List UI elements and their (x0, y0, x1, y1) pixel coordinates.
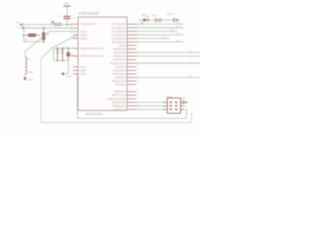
bottom faint wire (41, 122, 192, 124)
left pin AVCC stub (73, 27, 78, 29)
left pin numbers (70, 23, 73, 75)
bottom gnd wire (77, 117, 186, 119)
softening overlay (0, 0, 200, 135)
wire resistor to IC pin1 (61, 24, 73, 26)
left pin AGND2 stub (73, 37, 78, 39)
net name labels right (162, 22, 193, 78)
junction C2 top (57, 47, 59, 49)
button/contact S2 in pin13 chain (155, 19, 158, 22)
left pin AREF stub (73, 30, 78, 32)
right faint wire up (191, 113, 193, 123)
gnd wire up to ICSP (186, 109, 188, 118)
right pins PD0-PD7 stubs (127, 45, 136, 84)
wire C1 to reset net (66, 19, 68, 25)
left stubs (163, 102, 183, 109)
left pin PC6/RESET stub pin1 (73, 24, 78, 74)
pads (170, 102, 178, 111)
left pin AGND stub (73, 34, 78, 36)
wire crystal gnd down (67, 61, 69, 74)
right side net wires from ADC pins (136, 24, 184, 42)
diagonal wire AGND from IC (41, 35, 78, 59)
resistor R1 vertical (42, 28, 49, 43)
wire IC GND down to bottom rail (76, 74, 78, 118)
wire SCK to ICSP (136, 108, 167, 110)
left pin XTAL2 stub (73, 55, 78, 57)
left pin XTAL1 stub (73, 47, 78, 49)
wire coil to gnd arrow (24, 74, 26, 78)
inductor/antenna coil (25, 57, 27, 74)
wire XTAL1 (54, 47, 74, 49)
wire XTAL2 (70, 55, 73, 57)
wire reset net (21, 24, 54, 26)
crystal Q1 (67, 48, 71, 60)
right pin numbers (137, 23, 140, 110)
right stubs (181, 101, 183, 103)
junction on reset net (66, 24, 68, 26)
right side net wires from PD pins (136, 53, 200, 78)
ICSP connector SV1 (163, 95, 187, 113)
left pin GND2 stub (73, 73, 78, 75)
capacitor C2 (56, 48, 59, 60)
capacitor C1 on +5V line (64, 16, 71, 18)
right pins PB0-PB5 stubs (pins 14-19) (127, 92, 136, 110)
right pin name labels (108, 22, 126, 111)
left pin name labels (80, 22, 104, 76)
wire AVCC net (22, 27, 78, 29)
ic IC1 ATmega328 body (78, 17, 127, 111)
right pins PC0-PC5 ADC stubs (pins 23-28) (127, 24, 136, 42)
wire AREF row (50, 30, 79, 32)
net arrow right (174, 18, 179, 21)
ground arrow left (61, 72, 64, 76)
left pin VCC stub (73, 66, 78, 68)
wire LED to R4 (148, 19, 153, 21)
junction crystal top (67, 47, 69, 49)
ground arrow down (23, 78, 27, 81)
vertical wire x41 down (40, 59, 42, 123)
pushbutton S1 actuator mark (51, 21, 54, 24)
gnd rail under crystal (54, 60, 69, 62)
resistor R2 horizontal (23, 31, 40, 42)
wire XTAL1 drop (53, 48, 55, 60)
junction AVCC/R1 (43, 27, 45, 29)
LED1 on pin13 chain (138, 14, 149, 25)
supply +5V symbol (64, 2, 71, 16)
left pin GND1 stub (73, 69, 78, 71)
wire R2 down to rail (23, 35, 25, 42)
pushbutton S1 on reset line: contact circles (55, 23, 58, 26)
+5V arrow at ICSP (183, 101, 187, 104)
capacitor C3 (61, 48, 64, 60)
wire rail y41.7 (24, 41, 44, 43)
junction C3 top (62, 47, 64, 49)
diagonal wire AREF to coil (25, 31, 49, 57)
wire R4 to arrow (161, 19, 174, 21)
wire MISO to ICSP (136, 105, 167, 107)
wire MOSI to ICSP (136, 101, 167, 103)
